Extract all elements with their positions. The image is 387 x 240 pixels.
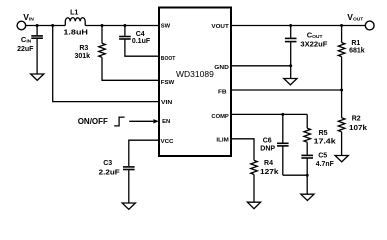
wire comp network bottom xyxy=(283,175,307,194)
svg-text:COUT: COUT xyxy=(307,31,323,40)
capacitor C6 xyxy=(277,114,289,175)
svg-text:R2: R2 xyxy=(352,116,361,123)
svg-text:SW: SW xyxy=(161,24,171,30)
svg-text:FSW: FSW xyxy=(161,80,175,86)
svg-text:2.2uF: 2.2uF xyxy=(99,170,121,177)
svg-text:C5: C5 xyxy=(318,152,327,159)
svg-text:R1: R1 xyxy=(351,40,360,47)
ground comp network xyxy=(301,194,314,200)
svg-text:681k: 681k xyxy=(349,47,365,54)
wire COMP row xyxy=(232,113,307,115)
wire EN with arrow xyxy=(129,120,154,122)
svg-text:1.8uH: 1.8uH xyxy=(63,29,88,36)
on/off pulse symbol xyxy=(114,117,124,126)
node junction C4 xyxy=(123,24,126,27)
capacitor C4 xyxy=(119,26,159,57)
svg-text:VOUT: VOUT xyxy=(211,24,229,30)
svg-text:4.7nF: 4.7nF xyxy=(316,161,335,168)
svg-text:22uF: 22uF xyxy=(17,46,34,53)
ground R4 xyxy=(247,202,260,209)
inductor L1 xyxy=(65,18,85,26)
wire GND row xyxy=(232,65,291,67)
svg-text:VIN: VIN xyxy=(23,12,34,22)
svg-text:FB: FB xyxy=(218,90,227,96)
node junction CIN xyxy=(36,24,39,27)
ground R2 xyxy=(335,156,348,162)
node junction COUT xyxy=(289,24,292,27)
svg-text:COMP: COMP xyxy=(211,114,229,120)
node junction C6 xyxy=(281,113,284,116)
svg-text:3X22uF: 3X22uF xyxy=(300,42,328,49)
svg-text:R5: R5 xyxy=(319,130,328,137)
svg-text:VOUT: VOUT xyxy=(347,12,363,22)
wire FB row xyxy=(232,89,342,91)
wire VIN pin branch xyxy=(53,26,159,102)
svg-text:CIN: CIN xyxy=(21,35,32,44)
svg-text:EN: EN xyxy=(162,119,170,125)
resistor R3 xyxy=(99,26,159,81)
resistor R5 xyxy=(304,114,311,154)
wire VOUT row xyxy=(232,25,365,27)
terminal VOUT xyxy=(365,21,374,30)
wire L1 to SW pin xyxy=(85,25,159,27)
svg-text:0.1uF: 0.1uF xyxy=(132,38,151,45)
resistor R2 xyxy=(338,90,345,156)
svg-text:L1: L1 xyxy=(70,9,78,16)
capacitor CIN xyxy=(31,26,43,75)
svg-text:GND: GND xyxy=(214,65,229,71)
node junction R1 top xyxy=(340,24,343,27)
ground CIN xyxy=(31,74,44,80)
capacitor C3 xyxy=(123,167,135,203)
capacitor COUT xyxy=(285,26,297,79)
wire ILIM xyxy=(232,139,254,161)
wire VCC xyxy=(129,140,159,166)
svg-text:127k: 127k xyxy=(260,169,279,176)
node junction VIN branch xyxy=(51,24,54,27)
node junction COUT gnd xyxy=(289,64,292,67)
svg-text:C3: C3 xyxy=(103,160,112,167)
svg-text:BOOT: BOOT xyxy=(161,56,176,62)
svg-text:VIN: VIN xyxy=(161,100,172,106)
svg-text:ON/OFF: ON/OFF xyxy=(78,117,108,126)
svg-text:C4: C4 xyxy=(136,31,145,38)
svg-text:VCC: VCC xyxy=(161,139,175,145)
svg-text:R3: R3 xyxy=(79,45,88,52)
svg-text:17.4k: 17.4k xyxy=(314,139,336,146)
svg-text:WD31089: WD31089 xyxy=(176,69,214,79)
svg-text:DNP: DNP xyxy=(260,146,275,153)
svg-text:ILIM: ILIM xyxy=(216,138,229,144)
resistor R1 xyxy=(338,26,345,91)
terminal VIN xyxy=(17,21,26,30)
svg-text:301k: 301k xyxy=(75,53,91,60)
svg-text:107k: 107k xyxy=(349,125,367,132)
capacitor C5 xyxy=(301,155,313,175)
node junction R3 xyxy=(101,24,104,27)
resistor R4 xyxy=(251,160,258,202)
svg-text:C6: C6 xyxy=(263,137,272,144)
ground C3 xyxy=(122,203,135,209)
ground COUT xyxy=(284,79,297,85)
svg-text:R4: R4 xyxy=(264,160,273,167)
wire VIN to L1 xyxy=(26,25,66,27)
node junction C5 bottom xyxy=(306,174,309,177)
IC U1 WD31089 xyxy=(159,8,231,157)
node junction FB xyxy=(340,89,343,92)
